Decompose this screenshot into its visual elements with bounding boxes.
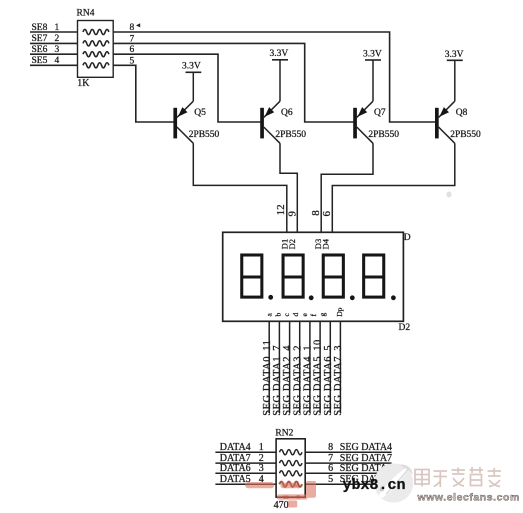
svg-text:3: 3 bbox=[55, 45, 60, 55]
svg-text:1: 1 bbox=[55, 23, 60, 33]
watermark red highlight marks bbox=[245, 481, 316, 508]
seven-segment digit 3 bbox=[323, 255, 343, 297]
wire SEG DATA6 right bbox=[305, 472, 391, 474]
svg-text:www.elecfans.com: www.elecfans.com bbox=[417, 492, 520, 504]
wire segment data pin 5 bbox=[309, 321, 311, 413]
wire SEG DATA4 right bbox=[305, 451, 391, 453]
seven-segment digit 2 bbox=[283, 255, 303, 297]
svg-text:d: d bbox=[291, 313, 300, 317]
wire segment data pin 4 bbox=[299, 321, 301, 413]
wire SE5 left stub bbox=[30, 64, 78, 66]
display D2 body bbox=[223, 232, 404, 321]
wire DATA7 bbox=[215, 462, 276, 464]
svg-text:2PB550: 2PB550 bbox=[189, 130, 220, 140]
svg-text:6: 6 bbox=[328, 463, 333, 474]
svg-text:6: 6 bbox=[321, 211, 333, 217]
resistor RN4 element 3 bbox=[83, 52, 109, 57]
wire net8 horizontal bbox=[113, 32, 435, 122]
wire net7 horizontal bbox=[113, 43, 353, 122]
svg-text:9: 9 bbox=[286, 211, 298, 217]
transistor Q5 2PB550 bbox=[173, 101, 219, 143]
resistor RN2 element 2 bbox=[280, 461, 303, 466]
svg-text:Dp: Dp bbox=[335, 307, 344, 316]
wire SE8 left stub bbox=[30, 31, 78, 33]
svg-text:ybx8.cn: ybx8.cn bbox=[343, 477, 406, 494]
pin8 arrow mark bbox=[136, 23, 140, 27]
power 3.3V for Q5 bbox=[182, 62, 201, 102]
resistor RN4 element 1 bbox=[83, 29, 109, 34]
svg-text:D: D bbox=[404, 233, 411, 243]
svg-text:8: 8 bbox=[130, 23, 135, 33]
svg-text:e: e bbox=[300, 313, 309, 317]
svg-text:7: 7 bbox=[130, 34, 135, 44]
resistor network RN2 box bbox=[276, 439, 305, 497]
svg-text:SE8: SE8 bbox=[32, 23, 48, 33]
wire Q7 collector to display pin 8 bbox=[321, 143, 373, 232]
svg-text:5: 5 bbox=[130, 56, 135, 66]
svg-text:b: b bbox=[273, 313, 282, 317]
svg-text:f: f bbox=[309, 314, 318, 317]
svg-text:SE6: SE6 bbox=[32, 45, 48, 55]
svg-text:SE5: SE5 bbox=[32, 56, 48, 66]
svg-text:RN4: RN4 bbox=[77, 9, 95, 19]
decimal point 1 bbox=[268, 295, 273, 300]
svg-text:3: 3 bbox=[259, 463, 264, 474]
decimal point 2 bbox=[309, 295, 314, 300]
svg-text:Q7: Q7 bbox=[374, 108, 386, 118]
wire segment data pin 1 bbox=[268, 321, 270, 413]
svg-text:D4: D4 bbox=[320, 238, 330, 249]
svg-text:2PB550: 2PB550 bbox=[450, 130, 481, 140]
svg-text:8: 8 bbox=[328, 442, 333, 453]
wire segment data pin 8 bbox=[339, 321, 341, 413]
svg-text:470: 470 bbox=[274, 500, 289, 511]
wire segment data pin 6 bbox=[319, 321, 321, 413]
svg-text:1K: 1K bbox=[77, 78, 90, 89]
svg-text:4: 4 bbox=[55, 56, 60, 66]
resistor RN4 element 4 bbox=[83, 63, 109, 68]
svg-text:3.3V: 3.3V bbox=[363, 49, 382, 59]
svg-text:c: c bbox=[282, 313, 291, 317]
wire SE6 left stub bbox=[30, 53, 78, 55]
transistor Q6 2PB550 bbox=[260, 101, 306, 143]
seven-segment digit 1 bbox=[242, 255, 262, 297]
wire DATA5 bbox=[215, 483, 276, 485]
wire segment data pin 3 bbox=[289, 321, 291, 413]
svg-text:3.3V: 3.3V bbox=[270, 49, 289, 59]
power 3.3V for Q7 bbox=[363, 49, 382, 101]
wire Q6 collector to display pin 9 bbox=[280, 143, 297, 232]
svg-text:6: 6 bbox=[130, 45, 135, 55]
svg-text:RN2: RN2 bbox=[275, 428, 293, 438]
svg-text:3.3V: 3.3V bbox=[182, 62, 201, 72]
wire segment data pin 7 bbox=[329, 321, 331, 413]
svg-text:2PB550: 2PB550 bbox=[368, 130, 399, 140]
watermark grey speck bbox=[446, 192, 451, 198]
wire net5 horizontal bbox=[113, 65, 174, 122]
seven-segment digit 4 bbox=[364, 255, 384, 297]
svg-text:g: g bbox=[318, 313, 327, 317]
resistor RN2 element 1 bbox=[280, 450, 303, 455]
wire net6 horizontal bbox=[113, 54, 260, 122]
wire SEG DATA5 right bbox=[305, 483, 391, 485]
svg-text:12: 12 bbox=[275, 204, 287, 215]
transistor Q7 2PB550 bbox=[353, 101, 399, 143]
svg-text:DATA4: DATA4 bbox=[220, 442, 251, 453]
watermark red squiggle overlay bbox=[280, 482, 303, 487]
svg-text:3.3V: 3.3V bbox=[445, 50, 464, 60]
svg-text:Q8: Q8 bbox=[456, 108, 468, 118]
svg-text:2PB550: 2PB550 bbox=[275, 130, 306, 140]
decimal point 4 bbox=[391, 295, 396, 300]
wire DATA4 bbox=[215, 451, 276, 453]
svg-text:SEG DATA4: SEG DATA4 bbox=[340, 442, 392, 453]
watermark swirl logo bbox=[374, 463, 413, 502]
svg-text:1: 1 bbox=[259, 442, 264, 453]
svg-text:5: 5 bbox=[328, 474, 333, 485]
transistor Q8 2PB550 bbox=[435, 101, 481, 143]
svg-text:D2: D2 bbox=[399, 323, 411, 333]
resistor network RN4 box bbox=[78, 21, 114, 78]
svg-text:SE7: SE7 bbox=[32, 34, 48, 44]
wire Q5 collector to display pin 12 bbox=[193, 143, 286, 232]
wire SE7 left stub bbox=[30, 42, 78, 44]
resistor RN2 element 4 bbox=[280, 482, 303, 487]
svg-text:Q5: Q5 bbox=[194, 108, 206, 118]
svg-text:2: 2 bbox=[55, 34, 60, 44]
svg-text:SEG DATA7: SEG DATA7 bbox=[333, 356, 344, 416]
power 3.3V for Q8 bbox=[445, 50, 464, 101]
decimal point 3 bbox=[350, 295, 355, 300]
svg-text:a: a bbox=[264, 313, 273, 317]
resistor RN4 element 2 bbox=[83, 41, 109, 46]
wire DATA6 bbox=[215, 472, 276, 474]
watermark chinese glyphs bbox=[415, 467, 501, 487]
wire segment data pin 2 bbox=[278, 321, 280, 413]
svg-text:DATA6: DATA6 bbox=[220, 463, 251, 474]
svg-text:Q6: Q6 bbox=[281, 108, 293, 118]
wire Q8 collector to display pin 6 bbox=[332, 143, 455, 232]
resistor RN2 element 3 bbox=[280, 471, 303, 476]
svg-text:3: 3 bbox=[333, 345, 344, 351]
wire SEG DATA7 right bbox=[305, 462, 391, 464]
power 3.3V for Q6 bbox=[270, 49, 289, 101]
svg-text:D2: D2 bbox=[287, 239, 297, 249]
